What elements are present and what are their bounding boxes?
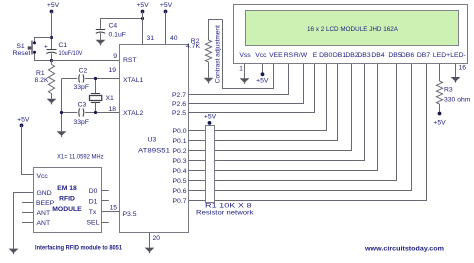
wire P0.2 to LCD DB2 <box>189 64 352 151</box>
svg-text:Tx: Tx <box>89 209 97 216</box>
svg-text:MODULE: MODULE <box>52 206 82 213</box>
resistor R1 <box>35 61 55 99</box>
wire VEE to R2 top <box>223 20 274 89</box>
svg-text:AT89S51: AT89S51 <box>138 147 170 154</box>
wire D1 stub <box>102 200 109 202</box>
svg-text:10uF/10V: 10uF/10V <box>59 50 83 57</box>
svg-text:P2.7: P2.7 <box>172 92 186 99</box>
svg-text:E: E <box>313 52 318 59</box>
ground RFID <box>9 249 19 255</box>
svg-text:S1: S1 <box>16 43 25 50</box>
svg-text:X1= 11.0592 MHz: X1= 11.0592 MHz <box>57 153 104 160</box>
node +5V supply resistor network <box>204 113 217 124</box>
svg-text:Vcc: Vcc <box>255 52 267 59</box>
wire +5V A down to C1 <box>51 12 53 50</box>
wire ANT stub 1 <box>22 212 34 214</box>
svg-text:20: 20 <box>153 235 161 242</box>
svg-text:R/W: R/W <box>294 52 308 59</box>
ground below crystal caps <box>57 131 67 137</box>
label caption <box>35 245 122 252</box>
ground below MCU pin 20 <box>145 248 155 254</box>
node junction caps leg <box>60 111 63 114</box>
node +5V supply R3 <box>433 112 446 127</box>
svg-text:P2.6: P2.6 <box>172 101 186 108</box>
svg-text:XTAL1: XTAL1 <box>123 77 143 84</box>
wire ANT stub 2 <box>22 222 34 224</box>
wire BEEP stub <box>22 202 34 204</box>
capacitor C1 <box>44 42 83 57</box>
wire MCU pin 20 to ground <box>150 233 161 248</box>
wire +5V to RFID Vcc <box>22 125 34 174</box>
wire XTAL2 row to MCU pin 18 <box>62 106 120 113</box>
svg-text:RFID: RFID <box>59 196 75 203</box>
svg-text:Contrast adjustment: Contrast adjustment <box>214 25 221 83</box>
wire LCD pin 2 Vcc to +5V <box>262 64 264 73</box>
svg-text:P0.7: P0.7 <box>173 198 187 205</box>
svg-text:4.7K: 4.7K <box>186 43 200 50</box>
svg-text:P2.5: P2.5 <box>172 110 186 117</box>
wire switch top branch <box>35 38 52 43</box>
resistor network R1 10K x 8 <box>196 123 254 217</box>
svg-text:VEE: VEE <box>269 52 283 59</box>
svg-text:LED-: LED- <box>450 52 466 59</box>
capacitor C3 <box>74 101 90 126</box>
svg-text:DB5: DB5 <box>388 52 401 59</box>
svg-text:40: 40 <box>170 35 178 42</box>
node junction C4 tap <box>141 17 144 20</box>
ground below R1 <box>47 99 57 105</box>
LCD module JHD 162A box <box>234 5 468 64</box>
svg-text:P3.5: P3.5 <box>123 211 137 218</box>
svg-text:33pF: 33pF <box>74 84 90 91</box>
svg-text:DB4: DB4 <box>371 52 384 59</box>
svg-text:R1 10K X 8: R1 10K X 8 <box>205 203 252 210</box>
svg-text:+5V: +5V <box>47 2 60 9</box>
label contrast adjustment <box>214 25 221 83</box>
wire C1 bottom to junction <box>51 53 53 60</box>
svg-text:C4: C4 <box>109 23 118 30</box>
svg-text:+5V: +5V <box>17 116 30 123</box>
svg-text:1: 1 <box>239 65 243 72</box>
svg-text:P0.3: P0.3 <box>173 158 187 165</box>
capacitor C2 <box>74 68 90 92</box>
node junction RST rail <box>50 59 53 62</box>
svg-text:P0.2: P0.2 <box>173 148 187 155</box>
svg-text:R3: R3 <box>444 87 453 94</box>
ground below C4 <box>96 40 106 46</box>
wire LCD pin 16 LED- to ground <box>456 64 467 78</box>
wire P0.6 to LCD DB6 <box>189 64 412 191</box>
svg-text:DB6: DB6 <box>401 52 414 59</box>
node junction crystal bottom <box>94 111 97 114</box>
svg-text:X1: X1 <box>106 95 115 102</box>
svg-text:33pF: 33pF <box>74 119 90 126</box>
svg-text:16: 16 <box>459 65 467 72</box>
potentiometer R2 contrast <box>186 20 222 78</box>
svg-text:16 x 2 LCD MODULE JHD 162A: 16 x 2 LCD MODULE JHD 162A <box>307 26 398 33</box>
svg-text:19: 19 <box>108 67 116 74</box>
svg-text:RS: RS <box>284 52 294 59</box>
wire P0.4 to LCD DB4 <box>189 64 378 171</box>
svg-text:+5V: +5V <box>136 2 149 9</box>
svg-text:SEL: SEL <box>87 219 100 226</box>
svg-text:XTAL2: XTAL2 <box>123 110 143 117</box>
svg-text:9: 9 <box>113 53 117 60</box>
svg-text:DB1: DB1 <box>333 52 346 59</box>
wire P0.5 to LCD DB5 <box>189 64 397 181</box>
svg-text:+5V: +5V <box>256 78 269 85</box>
svg-text:P0.4: P0.4 <box>173 168 187 175</box>
svg-text:0.1uF: 0.1uF <box>109 32 126 39</box>
svg-text:18: 18 <box>108 106 116 113</box>
svg-text:P0.6: P0.6 <box>173 188 187 195</box>
svg-text:RST: RST <box>123 57 137 64</box>
node +5V supply C <box>160 2 173 14</box>
svg-text:Vcc: Vcc <box>37 173 49 180</box>
wire Tx to MCU P3.5 pin 15 <box>102 204 120 211</box>
svg-text:DB7: DB7 <box>417 52 430 59</box>
svg-text:+: + <box>44 44 48 51</box>
wire switch bottom branch <box>35 53 52 61</box>
wire crystal caps common leg <box>61 79 63 132</box>
wire RFID GND to ground <box>14 193 34 249</box>
node junction switch top <box>50 36 53 39</box>
svg-text:P0.5: P0.5 <box>173 178 187 185</box>
node junction crystal top <box>94 77 97 80</box>
wire P0.1 to LCD DB1 <box>189 64 338 141</box>
ground below Vss <box>240 78 250 84</box>
svg-text:ANT: ANT <box>37 220 51 227</box>
wire P0.7 to LCD DB7 <box>189 64 427 201</box>
wire P2.5 to LCD E <box>189 64 315 113</box>
wire RST rail to MCU pin 9 <box>52 53 120 61</box>
label crystal frequency <box>57 153 104 160</box>
wire LCD pin 1 Vss to ground <box>239 64 244 79</box>
label website <box>364 245 444 252</box>
wire P2.7 to LCD RS <box>189 64 289 95</box>
wire P0.3 to LCD DB3 <box>189 64 365 161</box>
svg-text:31: 31 <box>147 35 155 42</box>
svg-text:R1: R1 <box>36 70 45 77</box>
svg-text:+5V: +5V <box>160 2 173 9</box>
svg-text:P0.1: P0.1 <box>173 138 187 145</box>
wire XTAL1 row to MCU pin 19 <box>62 67 120 79</box>
svg-text:Reset: Reset <box>13 50 31 57</box>
svg-text:C2: C2 <box>79 68 88 75</box>
switch S1 <box>13 41 36 58</box>
node +5V supply A <box>47 2 60 13</box>
node +5V supply LCD Vcc <box>256 72 269 84</box>
svg-text:ANT: ANT <box>37 210 51 217</box>
svg-text:DB0: DB0 <box>319 52 332 59</box>
svg-text:U3: U3 <box>148 137 157 144</box>
svg-text:15: 15 <box>109 204 117 211</box>
resistor R3 <box>436 64 470 112</box>
node +5V supply B <box>136 2 149 14</box>
wire +5V B to pin 31 <box>143 12 155 45</box>
wire P0.0 to LCD DB0 <box>189 64 327 131</box>
svg-text:C3: C3 <box>78 101 87 108</box>
svg-text:GND: GND <box>37 190 52 197</box>
node +5V supply RFID <box>17 116 30 127</box>
RFID module EM 18 box <box>34 168 102 233</box>
svg-text:Resistor network: Resistor network <box>196 210 254 217</box>
svg-text:EM 18: EM 18 <box>57 185 77 192</box>
crystal X1 <box>90 79 115 113</box>
IC U3 microcontroller AT89S51 <box>120 45 189 233</box>
capacitor C4 <box>96 19 143 40</box>
svg-text:+5V: +5V <box>204 113 217 120</box>
svg-text:Vss: Vss <box>239 52 251 59</box>
wire D0 stub <box>102 190 109 192</box>
svg-text:P0.0: P0.0 <box>173 128 187 135</box>
svg-text:C1: C1 <box>59 42 68 49</box>
wire SEL stub <box>102 222 109 224</box>
wire P2.6 to LCD R/W <box>189 64 304 104</box>
ground below R2 <box>204 78 214 84</box>
svg-text:D0: D0 <box>89 188 98 195</box>
svg-text:8.2K: 8.2K <box>35 77 49 84</box>
svg-text:www.circuitstoday.com: www.circuitstoday.com <box>364 245 444 252</box>
svg-text:DB3: DB3 <box>357 52 370 59</box>
svg-text:+5V: +5V <box>433 119 446 126</box>
svg-text:D1: D1 <box>89 198 98 205</box>
svg-text:LED+: LED+ <box>433 52 450 59</box>
svg-text:330 ohm: 330 ohm <box>444 97 471 104</box>
wire +5V C to pin 40 <box>166 12 178 45</box>
svg-text:Interfacing RFID module to 805: Interfacing RFID module to 8051 <box>35 245 122 252</box>
ground below LED- <box>451 77 461 83</box>
